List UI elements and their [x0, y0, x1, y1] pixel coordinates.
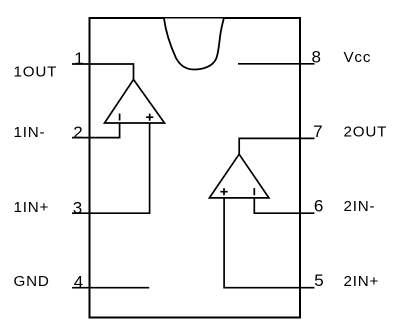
op-amp B non-inverting input marker (+)	[220, 188, 227, 195]
svg-text:3: 3	[73, 198, 82, 217]
wire pin 7 to op-amp B output	[239, 138, 314, 154]
svg-text:1OUT: 1OUT	[14, 64, 58, 81]
wire pin 2 to op-amp A inverting input	[72, 123, 120, 138]
svg-text:2IN-: 2IN-	[344, 198, 376, 215]
svg-text:6: 6	[314, 197, 323, 216]
svg-text:1IN-: 1IN-	[14, 124, 46, 141]
op-amp B triangle	[209, 154, 269, 198]
svg-text:Vcc: Vcc	[344, 49, 372, 66]
svg-text:2IN+: 2IN+	[344, 273, 380, 290]
op-amp A triangle	[105, 80, 165, 124]
svg-text:GND: GND	[14, 273, 50, 290]
wire pin 1 to op-amp A output	[72, 64, 134, 80]
svg-text:5: 5	[314, 271, 323, 290]
pin-1 orientation notch	[164, 19, 224, 70]
svg-text:1: 1	[74, 49, 83, 68]
wire pin 5 to op-amp B non-inverting input	[224, 198, 314, 288]
svg-text:2OUT: 2OUT	[344, 124, 388, 141]
wire pin 6 to op-amp B inverting input	[254, 198, 314, 213]
wire pin 3 to op-amp A non-inverting input	[72, 123, 150, 213]
op-amp A inverting input marker (-)	[119, 114, 121, 121]
svg-text:4: 4	[74, 273, 83, 292]
wire pin 4 GND stub	[72, 287, 149, 289]
wire pin 8 Vcc stub	[238, 63, 315, 65]
svg-text:1IN+: 1IN+	[14, 199, 50, 216]
op-amp A non-inverting input marker (+)	[146, 114, 153, 121]
svg-text:8: 8	[311, 47, 320, 66]
svg-text:2: 2	[73, 123, 82, 142]
op-amp B inverting input marker (-)	[253, 188, 255, 195]
IC body U1 (8-pin DIP outline)	[90, 18, 301, 318]
svg-text:7: 7	[313, 122, 322, 141]
